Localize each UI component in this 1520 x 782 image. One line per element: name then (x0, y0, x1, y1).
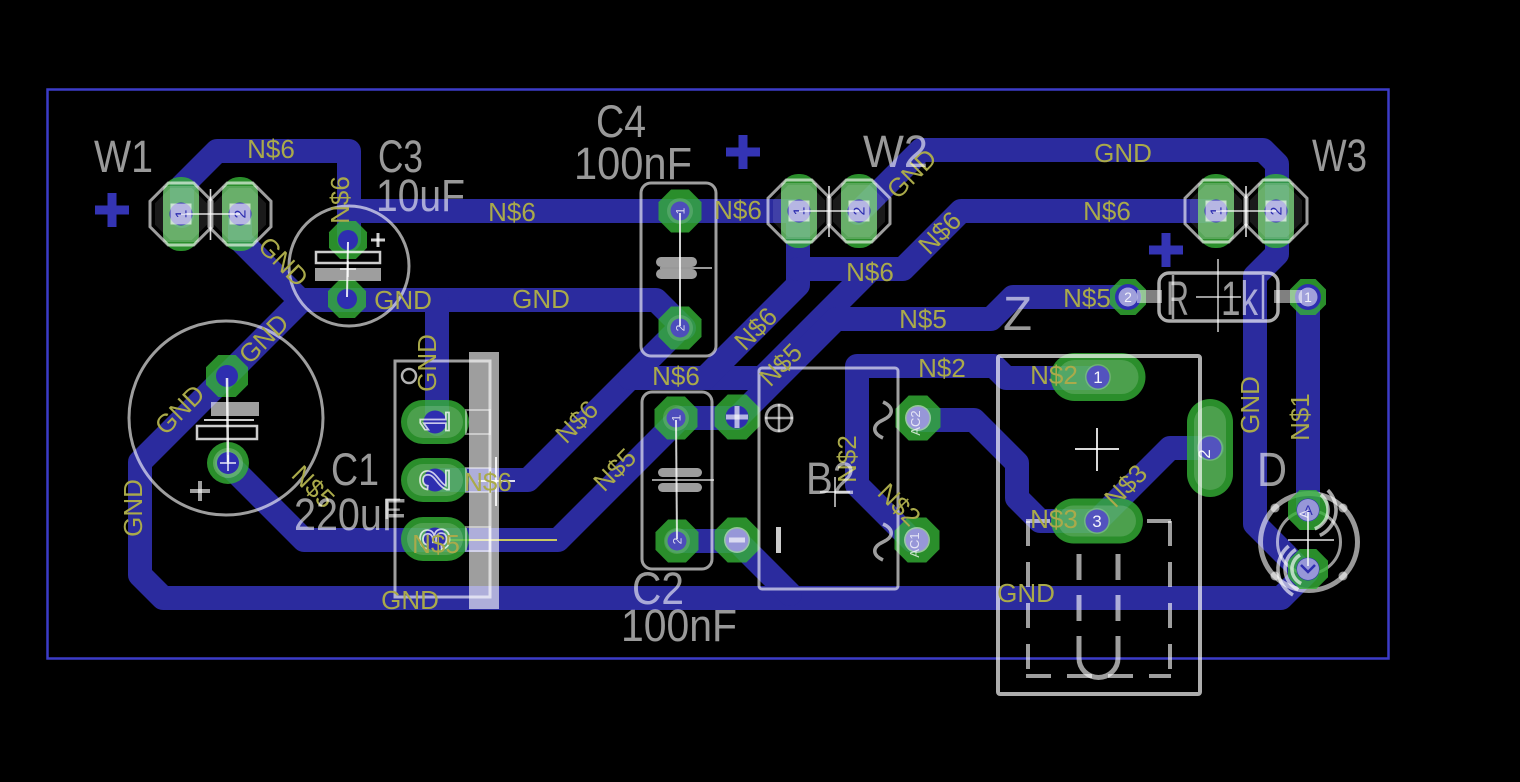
svg-text:1: 1 (1093, 368, 1102, 387)
svg-text:GND: GND (997, 578, 1055, 608)
silkscreen connector U slot (1077, 554, 1082, 658)
bridge B2 pad AC2 (896, 396, 941, 441)
svg-text:GND: GND (381, 585, 439, 615)
resistor R pad 1 (1290, 279, 1326, 315)
capacitor C3 pad 1 (329, 221, 367, 259)
LED origin cross (1307, 512, 1309, 566)
svg-text:N$5: N$5 (412, 529, 460, 559)
wire net N$5: C1.2 to IC1.3, C2.1, B2.+ (227, 418, 737, 540)
svg-text:2: 2 (411, 468, 458, 491)
wire net N$1: R.1 down to LED anode (1296, 297, 1320, 510)
regulator IC pad 3 (401, 517, 469, 561)
wire net N$5: B2.+ up to R.2 (737, 297, 1130, 418)
header W2 pad 1 (781, 174, 817, 248)
svg-text:W1: W1 (94, 131, 153, 182)
svg-text:C1: C1 (331, 444, 379, 495)
origin cross C4/W2 (blue) (726, 148, 760, 157)
svg-text:W2: W2 (863, 126, 928, 177)
wire net N$6: W1.1 to C3.1 top route (182, 151, 349, 240)
svg-text:1: 1 (1304, 289, 1312, 305)
silkscreen capacitor C3 circle and plates (289, 206, 409, 326)
bridge B2 pad + (715, 395, 760, 440)
capacitor C4 pad 2 (659, 307, 702, 350)
capacitor C2 pad 1 (655, 397, 698, 440)
regulator IC pad 2 (401, 458, 469, 502)
wire net GND: horizontal past C3.2 to C4.2 (301, 300, 684, 328)
svg-text:100nF: 100nF (574, 138, 692, 189)
connector pad 2 (1187, 399, 1233, 497)
B2 pad name + (726, 415, 748, 420)
wire net GND: drop to IC1 pad 1 (425, 300, 449, 424)
silkscreen connector origin cross (1096, 428, 1098, 471)
wire net N$6: short horizontal segment (630, 366, 762, 390)
svg-text:N$6: N$6 (714, 195, 762, 225)
silkscreen B2 plus terminal circle symbol (766, 405, 792, 431)
wire net GND: IC1 pad 2 diagonal up to C4.2 (441, 328, 680, 480)
silkscreen capacitor C1 circle and plates (129, 321, 323, 515)
wire junction C2.2 to B2.- (677, 541, 790, 594)
svg-text:N$5: N$5 (1063, 283, 1111, 313)
svg-text:2: 2 (1124, 289, 1132, 305)
origin cross R (blue) (1149, 246, 1183, 255)
wire net N$6: W2.1 stub to W3.1 (798, 211, 1216, 269)
svg-text:GND: GND (1235, 376, 1265, 434)
resistor R pad 2 (1110, 279, 1146, 315)
svg-text:N$2: N$2 (1030, 360, 1078, 390)
svg-text:N$6: N$6 (1083, 196, 1131, 226)
wire net N$2: B2.AC1 up through B2 to connector pad 1 (857, 366, 1098, 541)
silkscreen connector dashed body (1026, 519, 1050, 523)
silkscreen W2 octagons and pin line (768, 180, 830, 242)
regulator IC pad 1 (401, 400, 469, 444)
svg-text:AC1: AC1 (907, 532, 922, 557)
silkscreen capacitor C4 outline and plates (641, 183, 716, 356)
svg-text:N$6: N$6 (325, 176, 355, 224)
bridge B2 pad AC1 (895, 518, 940, 563)
silkscreen regulator IC1 outline, tab bar, index hole (395, 361, 490, 597)
svg-text:N$6: N$6 (488, 197, 536, 227)
svg-text:N$5: N$5 (899, 304, 947, 334)
silkscreen connector outline (998, 356, 1200, 694)
svg-text:N$1: N$1 (1285, 393, 1315, 441)
capacitor C4 pad 1 (659, 190, 702, 233)
wire net N$3: connector pad 3 to pad 2 (1097, 448, 1212, 521)
svg-text:B2: B2 (806, 453, 855, 504)
svg-text:N$6: N$6 (652, 361, 700, 391)
svg-text:GND: GND (512, 284, 570, 314)
board outline (48, 90, 1389, 659)
svg-text:3: 3 (1092, 512, 1101, 531)
svg-text:2: 2 (1195, 449, 1214, 458)
silkscreen W3 octagons and pin line (1185, 180, 1247, 242)
svg-text:GND: GND (412, 334, 442, 392)
svg-text:Z: Z (1003, 288, 1032, 341)
svg-text:GND: GND (374, 285, 432, 315)
wire net N$6: diagonal from W2.1 vertical (705, 211, 798, 378)
svg-text:1k: 1k (1221, 273, 1259, 326)
svg-text:A: A (1297, 510, 1311, 518)
LED D cathode pad (1288, 549, 1328, 589)
wire net GND: W2.2 over the top to W3.2 and down right side (858, 150, 1300, 569)
svg-text:AC2: AC2 (908, 410, 923, 435)
capacitor C3 pad 2 (328, 280, 366, 318)
silkscreen B2 AC squiggles (875, 402, 892, 438)
svg-text:220uF: 220uF (294, 489, 406, 540)
svg-text:100nF: 100nF (621, 600, 737, 651)
silkscreen capacitor C2 outline and plates (642, 392, 712, 569)
svg-text:N$3: N$3 (1030, 504, 1078, 534)
B2 pad name - (729, 538, 745, 543)
svg-text:N$6: N$6 (464, 467, 512, 497)
capacitor C2 pad 2 (656, 520, 699, 563)
silkscreen bridge B2 outline (759, 368, 898, 589)
bridge B2 pad - (715, 518, 760, 563)
svg-text:D: D (1257, 444, 1287, 497)
svg-text:GND: GND (1094, 138, 1152, 168)
svg-text:N$6: N$6 (846, 257, 894, 287)
airwire N$5 at IC1 pad 3 (437, 539, 557, 541)
wire net N$6: horizontal to C4.1 and W2.1 (349, 199, 798, 223)
header W2 pad 2 (841, 174, 877, 248)
svg-text:N$6: N$6 (247, 134, 295, 164)
wire net GND: W1.2 diagonal, C1.1, left edge, long bottom run to LED cathode (140, 216, 1307, 598)
wire net N$6: diagonal up toward W3.1 feeder (762, 269, 871, 378)
capacitor C1 pad 1 (206, 355, 248, 397)
svg-text:N$2: N$2 (918, 353, 966, 383)
header W3 pad 2 (1258, 174, 1294, 248)
svg-text:W3: W3 (1312, 130, 1367, 181)
silkscreen B2 minus marker (776, 527, 781, 553)
LED D anode pad (1288, 490, 1328, 530)
header W3 pad 1 (1198, 174, 1234, 248)
silkscreen resistor R body (1159, 273, 1278, 321)
header W1 pad 2 (222, 177, 258, 251)
LED D silkscreen rings (1261, 494, 1358, 591)
silkscreen B2 origin cross (834, 477, 836, 507)
silkscreen W1 octagons and pin line (150, 183, 212, 245)
connector pad 3 (1051, 499, 1143, 544)
svg-text:10uF: 10uF (376, 170, 465, 221)
capacitor C1 pad 2 (round) (207, 442, 249, 484)
connector pad 1 (1051, 353, 1146, 401)
wire net N$3: B2.AC2 to connector pad 3 (918, 420, 1098, 521)
svg-text:GND: GND (118, 479, 148, 537)
svg-text:1: 1 (411, 410, 458, 433)
header W1 pad 1 (163, 177, 199, 251)
silkscreen LED arcs (1315, 495, 1328, 529)
origin cross W1 (blue) (95, 206, 129, 215)
svg-text:R: R (1166, 273, 1189, 326)
